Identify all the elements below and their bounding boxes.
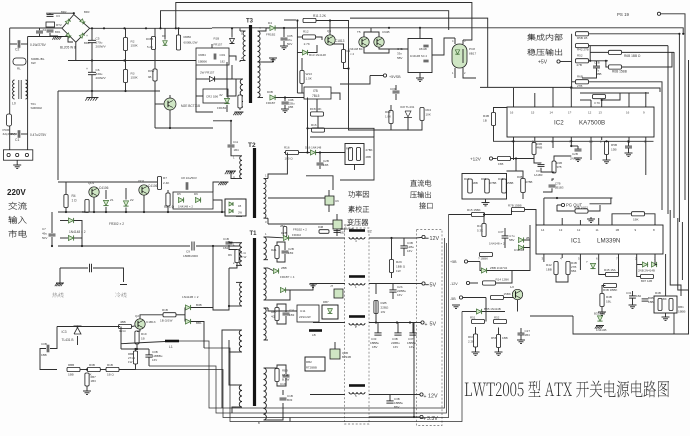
wire c11 top	[230, 121, 232, 144]
wire hc gnd	[59, 268, 61, 283]
wire q03 c	[169, 95, 171, 98]
svg-text:R12: R12	[303, 30, 309, 34]
svg-text:R4B: R4B	[498, 177, 504, 181]
resistor R52 sense	[494, 316, 507, 324]
svg-text:1B3: 1B3	[289, 313, 295, 317]
svg-text:C4106: C4106	[99, 186, 109, 190]
junction sr4	[105, 211, 107, 213]
ground d33	[595, 326, 604, 329]
svg-text:16V: 16V	[152, 358, 157, 362]
wire sb dn2	[317, 116, 319, 128]
resistor R55 stack	[576, 75, 589, 89]
diode D11 FR157	[209, 76, 214, 81]
wire hc	[60, 267, 88, 269]
wire t2 p4	[231, 171, 236, 179]
ground plug	[13, 165, 21, 168]
wire div w2	[534, 155, 541, 164]
ground t2	[225, 171, 236, 174]
svg-text:R6B: R6B	[577, 75, 583, 79]
junction sr2	[143, 211, 145, 213]
wire r50c	[606, 155, 608, 161]
junction ic2b	[605, 140, 607, 142]
svg-text:2BB: 2BB	[366, 155, 372, 159]
resistor R45 b	[604, 268, 619, 277]
resistor R14sb	[341, 49, 350, 63]
wire d3b out	[191, 307, 213, 309]
svg-text:16B: 16B	[323, 163, 328, 167]
wire t3 mid pin	[263, 58, 273, 62]
wire ic3 r	[331, 93, 340, 100]
terminal +5V	[416, 321, 436, 328]
svg-text:R4: R4	[72, 194, 76, 198]
junction rail d3	[145, 27, 147, 29]
junction q04	[329, 19, 331, 21]
svg-text:R16: R16	[311, 123, 317, 127]
diode ZD6 1N4734	[481, 266, 507, 273]
wire t1 l3	[229, 263, 237, 269]
svg-text:DB7: DB7	[323, 300, 329, 304]
capacitor C05 sec	[281, 34, 293, 46]
bridge rectifier BL205	[55, 10, 90, 45]
wire c7 up	[51, 212, 53, 233]
mosfet Q21	[330, 342, 351, 359]
junction icf	[570, 86, 572, 88]
svg-text:12V: 12V	[428, 393, 438, 399]
wire c09	[395, 85, 397, 90]
svg-text:CR1: CR1	[220, 53, 226, 57]
svg-text:R67: R67	[468, 335, 474, 339]
wire q30	[517, 300, 519, 312]
svg-text:U6: U6	[335, 199, 339, 203]
junction ic2c	[627, 140, 629, 142]
svg-text:LB: LB	[312, 333, 316, 337]
svg-text:FR1B2: FR1B2	[217, 106, 227, 110]
wire r28b	[375, 284, 377, 295]
wire C1 right	[21, 133, 28, 135]
wire cr1 top	[211, 44, 213, 48]
resistor R04sb	[420, 108, 431, 121]
resistor R33 fb	[85, 373, 96, 386]
ic IC3 78L05	[304, 87, 331, 99]
wire t1 left v3	[222, 330, 236, 392]
svg-text:KA7500B: KA7500B	[579, 120, 605, 127]
wire gnd rail	[58, 90, 160, 92]
wire bridge top feed	[46, 12, 74, 14]
wire right drop1	[665, 254, 667, 296]
svg-text:4: 4	[452, 39, 454, 43]
wire r0b2 b	[135, 364, 137, 370]
svg-text:1BB: 1BB	[68, 373, 74, 377]
svg-text:2BB: 2BB	[281, 266, 287, 270]
svg-text:L1: L1	[169, 345, 173, 349]
wire C2 left	[10, 43, 17, 45]
label BL205	[60, 46, 76, 50]
wire ic2 top f3	[552, 87, 554, 107]
label PS19	[617, 12, 630, 17]
junction fbm	[136, 348, 138, 350]
wire r13 r	[308, 45, 317, 53]
wire b2	[599, 258, 606, 275]
wire c31 v	[632, 291, 634, 296]
svg-text:B3B: B3B	[196, 303, 202, 307]
diode D31 fb	[185, 319, 202, 325]
junction b1	[91, 27, 93, 29]
wire sense1	[468, 261, 480, 263]
wire st6	[589, 82, 663, 88]
wire t1 left v6	[232, 407, 236, 410]
wire b7	[602, 286, 606, 294]
wire r40 dn	[494, 126, 654, 142]
label shuru	[8, 216, 26, 224]
svg-text:16V: 16V	[393, 345, 398, 349]
wire d11 l	[196, 78, 209, 80]
label jiekou	[419, 202, 432, 209]
svg-text:FR302 × 2: FR302 × 2	[109, 222, 124, 226]
inductor L2a -12V	[349, 229, 372, 243]
wire t1 left v4	[229, 340, 236, 352]
svg-text:22BΩ: 22BΩ	[381, 306, 390, 310]
wire r28a	[375, 301, 377, 323]
capacitor C1	[15, 130, 47, 142]
transformer T1 core	[253, 238, 256, 406]
svg-text:1N4148 × 2: 1N4148 × 2	[178, 205, 193, 209]
wire bundle v4	[678, 34, 680, 222]
wire t1 left v5	[229, 348, 236, 385]
wire t1 bus2	[231, 410, 233, 413]
wire d31 in	[176, 314, 185, 316]
svg-text:QD1: QD1	[88, 181, 95, 185]
wire b5	[655, 264, 657, 267]
diode D05 sec	[266, 90, 276, 105]
ground pfc	[218, 182, 228, 185]
ic IC1 LM339N	[536, 225, 663, 261]
resistor R50 stack	[576, 32, 589, 40]
svg-text:CR2 1B6: CR2 1B6	[206, 95, 219, 99]
wire sec w6	[282, 390, 284, 395]
wire r0b2 a	[135, 349, 137, 351]
svg-text:W13: W13	[306, 72, 313, 76]
junction rr1	[81, 245, 83, 247]
svg-text:1.8K: 1.8K	[385, 115, 391, 119]
svg-text:C1B13: C1B13	[146, 320, 156, 324]
svg-text:R0W: R0W	[148, 69, 155, 73]
wire fb3	[354, 165, 356, 171]
junction g1	[91, 90, 93, 92]
capacitor C26 st	[593, 61, 602, 77]
transistor Q1	[88, 181, 109, 197]
resistor R39 div	[498, 177, 513, 193]
svg-text:+12V: +12V	[470, 157, 482, 162]
wire 12aux	[493, 158, 497, 160]
wire snub5	[277, 365, 286, 374]
svg-text:1?: 1?	[568, 111, 572, 115]
resistor R51 stack	[576, 44, 589, 52]
svg-text:R1B: R1B	[107, 363, 113, 367]
svg-text:R44: R44	[346, 147, 351, 151]
ground pg	[587, 217, 595, 222]
svg-text:D0B: D0B	[267, 90, 273, 94]
svg-text:2.2B: 2.2B	[468, 340, 474, 344]
fb box	[310, 137, 374, 180]
resistor R7B pg	[508, 204, 525, 212]
svg-text:R2B: R2B	[381, 301, 387, 305]
wire zd6	[480, 262, 481, 271]
junction stby1	[177, 27, 179, 29]
svg-text:1BB: 1BB	[546, 268, 552, 272]
svg-text:R5B: R5B	[611, 143, 617, 147]
wire return rail2	[196, 245, 240, 247]
svg-text:15B: 15B	[611, 148, 617, 152]
svg-text:R45 15A: R45 15A	[604, 268, 616, 272]
svg-text:2B2: 2B2	[280, 224, 285, 228]
junction t1a	[228, 305, 230, 307]
capacitor C7B div	[549, 182, 564, 190]
svg-text:16V: 16V	[409, 345, 414, 349]
capacitor C29 ic2	[625, 141, 632, 153]
ground near bridge	[52, 37, 62, 40]
capacitor C8 pfc	[181, 176, 197, 190]
wire aux v	[507, 159, 517, 172]
svg-text:RL: RL	[17, 67, 21, 71]
svg-text:1BK: 1BK	[633, 218, 639, 222]
wire c26	[596, 61, 598, 66]
svg-text:R6B 15BB: R6B 15BB	[612, 70, 627, 74]
wire sec bus	[289, 418, 291, 422]
wire ic2 p7	[570, 137, 572, 146]
wire mid rail	[68, 60, 210, 62]
capacitor C28 out	[389, 285, 406, 297]
wire C1 join	[10, 133, 17, 135]
capacitor C27 sense	[518, 329, 531, 337]
wire mid4	[319, 153, 321, 163]
junction c05	[283, 27, 285, 29]
svg-text:C4106: C4106	[148, 184, 158, 188]
junction st2	[589, 60, 591, 62]
svg-text:1N414B: 1N414B	[514, 248, 524, 252]
junction g2	[124, 90, 126, 92]
wire ic1 pin b5	[618, 254, 620, 272]
resistor R41 ic1	[477, 224, 486, 237]
wire bridge bottom	[68, 42, 76, 60]
svg-text:+: +	[86, 67, 88, 71]
svg-text:R42 27B: R42 27B	[577, 48, 589, 52]
svg-text:1B3: 1B3	[91, 379, 97, 383]
svg-text:+5V: +5V	[538, 60, 548, 66]
wire z2 dn	[125, 208, 127, 213]
wire s6	[520, 335, 522, 340]
wire ic2 wire100b	[602, 93, 620, 100]
resistor R2	[123, 38, 138, 51]
wire r13 l	[297, 52, 302, 54]
wire CX2 down	[39, 34, 41, 37]
svg-text:C0B: C0B	[41, 342, 47, 346]
wire w13 dn	[301, 84, 303, 94]
svg-text:1: 1	[355, 285, 357, 289]
wire c28a	[392, 284, 394, 290]
wire d0 up	[164, 28, 166, 39]
svg-text:IC1: IC1	[571, 238, 581, 245]
wire r02 up	[178, 28, 180, 35]
wire snub1	[277, 242, 285, 250]
wire cr2 r	[228, 79, 236, 96]
svg-text:50V: 50V	[42, 236, 47, 240]
svg-text:B6V: B6V	[394, 405, 400, 409]
wire rail -12V	[310, 237, 345, 239]
optocoupler CR2	[203, 89, 228, 103]
wire sense2	[470, 282, 478, 284]
diode box D17	[322, 300, 338, 319]
capacitor C19	[280, 375, 290, 386]
wire d4 in	[263, 28, 269, 31]
diode Z1	[103, 198, 113, 206]
svg-text:600BL/2W: 600BL/2W	[184, 41, 198, 45]
capacitor C10 t1	[223, 237, 233, 250]
wire B+ rail2	[152, 27, 212, 29]
diode D42 b	[586, 260, 596, 269]
driver box t2	[225, 199, 246, 216]
terminal +12V	[416, 393, 438, 400]
svg-text:-5B: -5B	[450, 297, 456, 301]
resistor R0B fb	[119, 320, 132, 333]
capacitor C31 b	[626, 291, 642, 298]
svg-text:C1B: C1B	[223, 237, 229, 241]
wire ic2 p5	[534, 137, 536, 141]
wire sec w4	[268, 367, 277, 369]
label gonglv	[348, 191, 368, 198]
svg-text:D0B5: D0B5	[146, 37, 154, 41]
svg-text:1: 1	[265, 174, 267, 178]
resistor R45 270K	[357, 148, 373, 161]
wire mid v	[286, 153, 288, 169]
svg-text:R6B 1BB Ω: R6B 1BB Ω	[624, 54, 641, 58]
label 1N4148x2 pfc	[69, 230, 86, 234]
diode D02 lower	[233, 95, 243, 115]
svg-text:C2: C2	[15, 48, 19, 52]
wire C2 right	[21, 43, 28, 45]
wire c35b	[504, 238, 506, 248]
wire r14 dn	[344, 63, 349, 69]
wire r40 up	[494, 108, 508, 113]
svg-text:U11: U11	[300, 309, 306, 313]
svg-text:R5B 1B: R5B 1B	[577, 36, 587, 40]
junction ps	[678, 33, 680, 35]
svg-text:C9: C9	[186, 250, 190, 254]
svg-text:1BB: 1BB	[502, 336, 508, 340]
diode D35 sense	[476, 307, 500, 314]
wire ic2 p2	[601, 137, 603, 140]
wire c33	[377, 323, 379, 333]
wire CX2 up	[39, 28, 41, 30]
svg-text:1B4: 1B4	[234, 148, 240, 152]
wire r33 dn	[86, 386, 88, 391]
wire mid2	[299, 152, 311, 154]
svg-text:2 W: 2 W	[241, 255, 247, 259]
svg-text:X2: X2	[43, 28, 47, 32]
svg-text:R6B 16Ω2: R6B 16Ω2	[574, 206, 588, 210]
ground ic2 caps	[574, 153, 633, 163]
wire d11 v	[195, 65, 197, 90]
svg-text:C94B: C94B	[382, 30, 390, 34]
wire fb feed	[308, 128, 375, 137]
terminal PS-ON	[657, 12, 660, 15]
wire ic1 pin b1	[543, 254, 545, 262]
svg-text:R15/10K: R15/10K	[310, 107, 322, 111]
wire st6b	[572, 81, 576, 83]
ground c05	[280, 46, 288, 49]
svg-text:R1B: R1B	[214, 37, 220, 41]
terminal -12V sense	[450, 281, 470, 286]
wire pfc gnd	[213, 182, 219, 192]
wire c7 dn	[51, 237, 53, 246]
transistor Q30 sense	[510, 285, 523, 300]
svg-text:R03: R03	[385, 110, 391, 114]
svg-text:R14 12BK: R14 12BK	[496, 278, 510, 282]
resistor R44 br	[655, 291, 667, 311]
wire q1 e	[93, 197, 95, 212]
label bianya	[347, 219, 368, 226]
ground b gnd	[598, 305, 637, 315]
wire t2 p1	[231, 148, 236, 156]
svg-text:200WV: 200WV	[96, 76, 107, 80]
svg-text:1W: 1W	[396, 269, 401, 273]
svg-text:50V: 50V	[287, 42, 292, 46]
wire div w1	[533, 141, 535, 144]
label 1n4148x2 a	[348, 47, 363, 56]
wire s4	[498, 348, 500, 353]
svg-text:1BBB: 1BBB	[678, 310, 685, 314]
svg-text:1B2: 1B2	[223, 246, 229, 250]
wire zd1b	[226, 105, 228, 112]
capacitor C09	[390, 87, 400, 93]
wire snub2	[277, 254, 285, 262]
wire rail -12Vb	[369, 237, 416, 239]
fuse F1	[7, 114, 12, 126]
resistor R03sb	[385, 110, 393, 124]
ground hot	[55, 283, 64, 286]
svg-text:14: 14	[541, 228, 545, 232]
svg-text:0.47u/275V: 0.47u/275V	[30, 133, 47, 137]
capacitor C32 br	[642, 296, 654, 304]
resistor R67 sense	[468, 334, 478, 347]
diode pair ZD8	[638, 262, 657, 273]
junction row	[86, 368, 88, 370]
wire left drop	[57, 91, 59, 180]
svg-text:1B: 1B	[616, 228, 620, 232]
svg-text:R4B: R4B	[483, 114, 489, 118]
wire d21 in	[268, 268, 273, 271]
resistor R6B pg	[574, 206, 588, 214]
junction rail d2	[175, 27, 177, 29]
svg-text:TL431 B: TL431 B	[62, 338, 74, 342]
wire sb v1	[296, 21, 298, 94]
junction sr6	[167, 211, 169, 213]
resistor R16sb	[311, 123, 325, 132]
optocoupler PC817	[452, 39, 477, 75]
wire ic1 p12	[579, 220, 581, 225]
wire pg3	[612, 214, 632, 225]
junction ic2d	[570, 140, 572, 142]
svg-text:5BV: 5BV	[509, 238, 515, 242]
wire tl v	[77, 336, 79, 345]
svg-text:2NB 2N414B: 2NB 2N414B	[638, 269, 655, 273]
svg-text:? 1BBK: ? 1BBK	[478, 257, 488, 261]
capacitor C6	[86, 67, 107, 80]
wire r14b	[496, 276, 513, 283]
svg-text:B97 12B: B97 12B	[641, 279, 652, 283]
svg-text:14: 14	[550, 111, 554, 115]
resistor R2B row	[280, 224, 287, 237]
svg-text:R42: R42	[546, 263, 552, 267]
